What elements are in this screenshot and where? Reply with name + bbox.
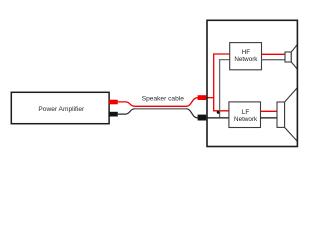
svg-text:LF: LF [242, 109, 250, 116]
speaker terminal + (red) [198, 95, 207, 100]
wire black terminal to LF [206, 117, 229, 119]
cable grey conductor overlay [135, 108, 187, 110]
woofer cone [285, 88, 298, 142]
power amplifier box [11, 92, 109, 123]
svg-text:Network: Network [234, 56, 258, 63]
amp terminal + (red) [109, 100, 118, 105]
svg-text:Power Amplifier: Power Amplifier [38, 106, 85, 113]
svg-text:HF: HF [242, 49, 251, 56]
wire black amp to cable [118, 109, 198, 118]
junction blob [217, 111, 220, 114]
svg-text:Speaker cable: Speaker cable [142, 96, 184, 103]
wire red HF to tweeter [262, 53, 286, 55]
svg-text:Network: Network [234, 116, 258, 123]
tweeter cone [291, 44, 297, 69]
woofer magnet [277, 102, 285, 127]
tweeter magnet [285, 52, 291, 62]
speaker enclosure fill [207, 20, 297, 146]
wire red riser [214, 54, 230, 111]
wire red terminal to riser [206, 97, 214, 99]
speaker terminal - (black) [198, 115, 207, 121]
amp terminal - (black) [109, 112, 118, 117]
wire grey HF to tweeter [262, 59, 286, 61]
wire grey riser to HF [220, 60, 230, 118]
wire red amp to cable [118, 98, 198, 107]
wire red LF to woofer [261, 110, 278, 112]
speaker enclosure outline [207, 20, 297, 146]
wire black LF to woofer [261, 117, 278, 119]
LF network box [229, 102, 261, 128]
HF network box [230, 43, 262, 70]
